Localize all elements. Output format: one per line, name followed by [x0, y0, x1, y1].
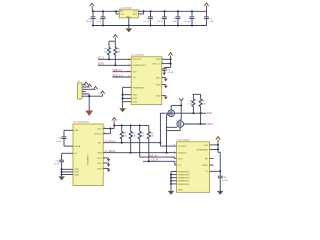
svg-text:R3: R3	[123, 133, 127, 135]
junction dots	[109, 124, 115, 129]
svg-text:GND: GND	[133, 95, 138, 97]
supply VDD arrow right of U4	[215, 136, 220, 145]
svg-text:GND: GND	[178, 190, 183, 192]
svg-text:OUT: OUT	[133, 11, 138, 13]
svg-text:RESERVED: RESERVED	[178, 181, 190, 183]
connector J1	[77, 80, 82, 99]
supply VDD down arrow	[179, 98, 184, 105]
wire U3 SDO stub + ground	[103, 158, 108, 159]
svg-text:RESERVED: RESERVED	[178, 175, 190, 177]
svg-text:GND 2,4: GND 2,4	[112, 73, 123, 77]
ground C8	[162, 73, 166, 76]
wire U2 vdd pins	[162, 59, 171, 63]
svg-text:1: 1	[139, 10, 140, 12]
IC U2 pressure sensor	[131, 54, 162, 105]
svg-text:LSM6DS33: LSM6DS33	[86, 155, 88, 166]
supply arrow pin2	[87, 83, 92, 87]
svg-text:4.7k: 4.7k	[202, 103, 207, 105]
svg-text:4: 4	[174, 145, 175, 147]
wire U4 INT stub	[210, 157, 214, 159]
svg-text:R4: R4	[132, 133, 136, 135]
svg-text:SDO: SDO	[133, 72, 138, 74]
wire pullup rail mid	[114, 124, 149, 126]
svg-text:1 uF: 1 uF	[97, 21, 102, 23]
ground U3	[58, 176, 65, 180]
junction dots	[121, 142, 162, 154]
resistor R7	[192, 94, 195, 113]
svg-text:9: 9	[121, 10, 122, 12]
svg-text:RESERVED: RESERVED	[178, 178, 190, 180]
wire pullup rail right	[193, 93, 201, 95]
capacitor C7	[204, 11, 209, 25]
ground U4 left	[168, 191, 175, 195]
wire SDO stub	[113, 71, 132, 73]
svg-text:CAP: CAP	[74, 129, 79, 132]
svg-text:2: 2	[104, 141, 105, 143]
resistor R5	[138, 125, 141, 157]
wire GND stub + ground	[162, 85, 166, 86]
svg-text:R6: R6	[150, 133, 154, 135]
svg-text:6: 6	[174, 151, 175, 153]
svg-text:2_SDA1: 2_SDA1	[106, 149, 116, 153]
junction dots	[88, 95, 90, 97]
wire J1 pin6	[82, 94, 103, 97]
svg-text:2,3: 2,3	[127, 70, 130, 72]
svg-text:SCL/SPC: SCL/SPC	[133, 59, 142, 61]
magnetometer U4 box	[177, 139, 210, 192]
svg-text:CS_M: CS_M	[151, 158, 158, 162]
svg-text:1: 1	[104, 151, 105, 153]
svg-text:R5: R5	[141, 133, 145, 135]
supply arrow pin3	[93, 86, 98, 90]
wire U3 INT1 stub + ground	[103, 163, 108, 164]
resistor R1	[108, 41, 111, 59]
svg-text:8: 8	[174, 164, 175, 166]
svg-text:RESERVED: RESERVED	[197, 149, 209, 151]
capacitor C5	[176, 11, 181, 25]
svg-text:4: 4	[128, 58, 129, 60]
svg-text:1: 1	[162, 58, 163, 60]
svg-text:SDA1: SDA1	[98, 62, 105, 66]
supply VIN arrow top-left	[89, 2, 94, 11]
wire INT1 stub + ground	[162, 78, 166, 79]
svg-text:SDO: SDO	[97, 158, 102, 160]
svg-text:SA0_M: SA0_M	[148, 153, 157, 157]
wire U1 outputs	[138, 11, 143, 14]
wire SCL mid	[160, 112, 206, 114]
svg-text:C10: C10	[222, 177, 227, 179]
wire U4 left cluster	[171, 172, 177, 191]
wire J1 pin4	[82, 91, 86, 93]
svg-text:10 uF: 10 uF	[86, 21, 92, 23]
wire U1 gnd stem	[128, 18, 130, 26]
svg-text:2: 2	[162, 62, 163, 64]
svg-text:10k: 10k	[117, 52, 121, 54]
svg-text:0.1 uF: 0.1 uF	[157, 21, 164, 23]
svg-text:6: 6	[83, 96, 84, 98]
svg-text:10k: 10k	[132, 136, 136, 138]
svg-text:VDD_IO: VDD_IO	[153, 63, 161, 65]
svg-text:GND: GND	[74, 174, 79, 176]
svg-text:4.7 uF: 4.7 uF	[53, 163, 60, 165]
wire U4 vdd pins	[210, 145, 221, 171]
svg-text:1 uF: 1 uF	[173, 21, 178, 23]
svg-text:GND: GND	[156, 84, 161, 86]
wire Q1 drain up	[171, 105, 181, 110]
svg-text:VDD: VDD	[204, 145, 209, 147]
junction dots	[170, 58, 172, 64]
svg-text:U2 LPS25H: U2 LPS25H	[131, 54, 144, 57]
wire SA0 stub + ground	[162, 96, 166, 97]
ground C10	[217, 191, 224, 195]
accel/gyro U3 box	[73, 121, 103, 185]
capacitor C11 on U3 left	[62, 130, 73, 146]
svg-text:3: 3	[104, 127, 105, 129]
svg-text:10k: 10k	[104, 52, 108, 54]
capacitor C2	[101, 11, 106, 25]
wire U2 left gnd cluster	[123, 87, 132, 108]
wire SA0 row1	[140, 157, 177, 158]
wire U3 VDDIO pin	[103, 129, 110, 134]
svg-text:7: 7	[174, 157, 175, 159]
svg-text:SDA/SDI: SDA/SDI	[178, 152, 187, 155]
junction dots	[108, 58, 116, 66]
svg-text:VDD_IO: VDD_IO	[94, 134, 102, 136]
wire gate rail	[167, 115, 178, 153]
svg-text:SCL1: SCL1	[98, 56, 105, 60]
svg-text:U3 LSM6DS33: U3 LSM6DS33	[73, 121, 90, 124]
svg-text:GND: GND	[133, 102, 138, 104]
wire SDA mid	[184, 123, 207, 125]
wire CS stub	[113, 76, 132, 78]
svg-text:6: 6	[128, 76, 129, 78]
svg-text:C7: C7	[210, 18, 214, 20]
junction dots	[148, 160, 150, 162]
supply VDD arrow above pullups	[113, 34, 118, 41]
junction dots	[217, 144, 221, 173]
svg-text:ON: ON	[121, 14, 125, 16]
svg-text:SDO: SDO	[178, 158, 183, 160]
svg-text:VDDA: VDDA	[74, 145, 80, 148]
ground under U1	[126, 26, 133, 33]
wire U4 DRDY stub	[210, 164, 214, 166]
svg-text:2_SCL1: 2_SCL1	[106, 139, 116, 143]
svg-text:5: 5	[128, 64, 129, 66]
svg-text:U4 LIS3MDL: U4 LIS3MDL	[177, 139, 191, 142]
supply VDD arrow top-right	[204, 2, 209, 11]
svg-text:0.1 uF: 0.1 uF	[56, 141, 63, 143]
wire 2_SDA1	[103, 152, 176, 154]
svg-text:RESERVED: RESERVED	[178, 171, 190, 173]
svg-text:RESERVED: RESERVED	[133, 87, 145, 89]
svg-text:10k: 10k	[123, 136, 127, 138]
svg-text:SCL: SCL	[207, 111, 213, 115]
junction dots	[180, 104, 182, 106]
wire drain node drop	[180, 105, 181, 120]
resistor R3	[120, 125, 123, 142]
wire U3 INT2 stub + ground	[103, 168, 108, 169]
wire J1 pin2	[82, 86, 90, 88]
junction dots	[122, 94, 124, 100]
svg-text:0.1 uF: 0.1 uF	[185, 21, 192, 23]
resistor R6	[147, 125, 150, 161]
svg-text:VDD 2,4: VDD 2,4	[112, 68, 122, 72]
svg-text:SDA: SDA	[98, 152, 103, 155]
capacitor C6	[190, 11, 195, 25]
svg-text:R2: R2	[117, 49, 121, 51]
ground U2 left	[119, 108, 126, 112]
capacitor C8 bypass U2	[162, 64, 171, 73]
wire CS row2	[143, 161, 177, 165]
capacitor C1	[91, 11, 96, 25]
transistor Q1 mosfet	[168, 110, 175, 117]
wire Q2 source down	[167, 127, 181, 130]
svg-text:GND: GND	[133, 98, 138, 100]
junction dots	[61, 168, 63, 175]
wire U3 gnd cluster	[62, 169, 73, 174]
wire SCL1	[98, 58, 131, 60]
wire J1 pin1	[82, 84, 86, 86]
junction dots	[165, 112, 201, 154]
wire J1 pin5	[82, 94, 89, 111]
wire SCL drop to U4	[160, 113, 176, 146]
capacitor C4	[162, 11, 167, 25]
wire J1 pin3	[82, 88, 96, 90]
wire VIN rail	[93, 10, 120, 12]
svg-text:0.1 uF: 0.1 uF	[167, 72, 174, 74]
junction dots	[142, 10, 193, 26]
wire SDA1	[98, 64, 131, 66]
resistor R4	[129, 125, 132, 152]
svg-text:10k: 10k	[150, 136, 154, 138]
svg-text:VDD: VDD	[156, 59, 161, 61]
svg-text:1 uF: 1 uF	[210, 21, 215, 23]
node VIN junctions	[92, 10, 117, 12]
wire pullup top	[109, 40, 115, 42]
svg-text:4.7 uF: 4.7 uF	[143, 21, 150, 23]
supply VDD arrow above U3 right	[112, 117, 117, 129]
ground J1 big arrow	[85, 111, 93, 117]
wire GND rail	[93, 25, 207, 27]
svg-text:SDA: SDA	[207, 122, 213, 126]
resistor R8	[199, 94, 202, 124]
pin numbers	[83, 10, 175, 166]
svg-text:0.1 uF: 0.1 uF	[222, 180, 229, 182]
capacitor C3	[148, 11, 153, 25]
wire VDD rail	[144, 10, 207, 12]
regulator U1	[119, 7, 138, 18]
svg-text:SCL/SPC: SCL/SPC	[178, 146, 187, 148]
transistor Q2 mosfet	[177, 121, 184, 128]
junction dots	[92, 24, 130, 26]
wire U3 VDD pin	[103, 128, 114, 130]
supply arrow pin6	[100, 90, 105, 94]
resistor R2	[114, 41, 117, 65]
svg-text:SDA/SDI/SDO: SDA/SDI/SDO	[133, 64, 147, 67]
junction dots	[170, 174, 172, 185]
capacitor C12 on U3 left	[59, 153, 73, 176]
svg-text:VDD: VDD	[97, 129, 102, 131]
svg-text:BYP: BYP	[133, 14, 138, 16]
svg-text:8: 8	[104, 132, 105, 134]
svg-text:R8: R8	[202, 101, 206, 103]
supply VDD arrow right of U2	[168, 52, 173, 60]
wire 2_SCL1	[103, 142, 160, 144]
supply arrow pin1	[83, 81, 88, 85]
svg-text:10k: 10k	[141, 136, 145, 138]
junction dots	[121, 124, 141, 126]
svg-text:DRDY: DRDY	[202, 165, 209, 167]
wire EN split	[116, 11, 119, 14]
svg-text:RESERVED: RESERVED	[178, 184, 190, 186]
capacitor C10	[210, 171, 223, 191]
